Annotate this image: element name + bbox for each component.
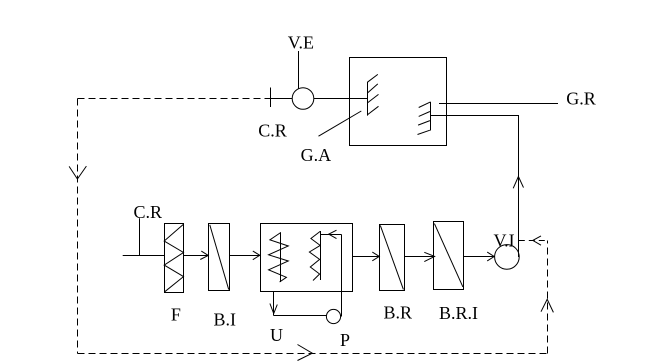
wire V.E label stem [298, 51, 300, 89]
svg-text:B.R.I: B.R.I [439, 303, 478, 323]
box B.R [380, 225, 405, 291]
svg-text:C.R: C.R [258, 120, 287, 140]
wire U to B.R [353, 256, 380, 258]
svg-text:V.I: V.I [494, 230, 515, 250]
pump V.I circle [495, 245, 520, 270]
wire U drop to pump P [274, 315, 327, 317]
pointer line G.A label [319, 111, 362, 136]
wire dashed recycle right vertical [547, 241, 549, 354]
valve V.E circle [292, 88, 314, 110]
electrode comb right in G.A [418, 102, 431, 135]
arrow up on wire to G.A [513, 177, 523, 189]
arrow into B.R.I [424, 252, 434, 261]
diagonal in B.I [210, 225, 229, 290]
wire B.I to U [230, 255, 260, 257]
svg-text:F: F [171, 305, 181, 325]
wire B.R.I to V.I [464, 256, 495, 258]
svg-text:B.R: B.R [384, 303, 413, 323]
wire valve V.E to G.A box [314, 98, 368, 100]
svg-text:G.R: G.R [566, 88, 596, 108]
arrow into V.I [487, 252, 494, 261]
svg-text:C.R: C.R [134, 202, 163, 222]
arrow left on U internal wire [329, 230, 337, 238]
wire dashed into V.I [519, 240, 548, 242]
wire C.R bottom stem [139, 218, 141, 255]
wire G.A to G.R [439, 103, 558, 105]
box G.A [350, 58, 447, 146]
wire dashed recycle top horizontal [78, 98, 271, 100]
arrow down on U drop [270, 304, 277, 314]
heater coil right in U [309, 231, 320, 281]
pump P circle [326, 309, 340, 323]
diagonal in B.R [380, 225, 403, 289]
svg-text:U: U [270, 325, 283, 345]
valve tick C.R top [270, 88, 272, 108]
wire inlet to filter F [123, 255, 165, 257]
wire U internal top [321, 234, 342, 236]
wire B.R to B.R.I [405, 256, 435, 258]
wire F to B.I [184, 255, 209, 257]
wire dashed recycle left vertical [77, 99, 79, 354]
arrow left on dashed wire into V.I [533, 236, 541, 245]
arrow up on right dashed wire [541, 299, 553, 312]
svg-text:V.E: V.E [288, 33, 314, 53]
svg-text:G.A: G.A [301, 145, 332, 165]
arrow into U [253, 251, 260, 260]
svg-text:P: P [340, 330, 350, 350]
electrode comb left in G.A [367, 74, 378, 115]
box B.I [209, 224, 230, 291]
wire G.A down to V.I [430, 116, 518, 258]
svg-text:B.I: B.I [214, 309, 237, 329]
wire tick to valve V.E [270, 98, 293, 100]
filter F zigzag [164, 224, 183, 292]
wire U bottom drop [273, 292, 275, 316]
wire dashed recycle bottom horizontal [78, 353, 548, 355]
box B.R.I [434, 222, 464, 290]
wire U internal right down to pump P [341, 235, 343, 317]
box U [261, 224, 353, 292]
arrow down on left dashed wire [69, 166, 86, 179]
filter F box [165, 224, 184, 293]
arrow into B.I [200, 251, 208, 259]
arrow into B.R [372, 252, 379, 261]
diagonal in B.R.I [434, 224, 463, 287]
arrow right on bottom dashed wire [298, 345, 313, 361]
heater coil left in U [269, 232, 289, 282]
